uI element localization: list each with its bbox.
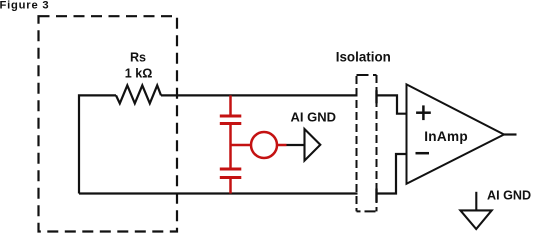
wire: isolation to - input — [378, 154, 407, 194]
svg-text:Figure 3: Figure 3 — [0, 0, 49, 12]
capacitor: red cable capacitance upper — [220, 95, 242, 167]
svg-text:InAmp: InAmp — [424, 129, 468, 144]
source: red circle (common-mode voltage source) — [251, 132, 277, 158]
AI GND arrow (open triangle) — [305, 129, 321, 161]
svg-text:Rs: Rs — [130, 51, 146, 65]
capacitor plate: isolation top right — [375, 90, 377, 103]
dashed box: signal source enclosure — [39, 16, 178, 231]
svg-text:AI GND: AI GND — [291, 109, 337, 124]
plus sign — [416, 105, 431, 120]
svg-text:1 kΩ: 1 kΩ — [125, 67, 153, 81]
wire: isolation to + input — [377, 95, 407, 113]
wire: red stub right of circle — [277, 144, 287, 147]
wire: amp output stub — [504, 133, 517, 135]
svg-text:Isolation: Isolation — [336, 49, 391, 64]
capacitor: red cable capacitance lower — [220, 169, 242, 194]
dashed box: isolation barrier, top edge — [357, 74, 377, 76]
resistor Rs zigzag — [116, 85, 161, 103]
op-amp InAmp triangle — [407, 84, 505, 183]
wire: red branch to source — [231, 144, 251, 147]
wire: black to AI GND arrow — [287, 144, 305, 146]
dashed box: isolation barrier, bottom edge — [357, 210, 377, 212]
minus sign — [416, 152, 430, 155]
svg-text:AI GND: AI GND — [487, 188, 531, 202]
capacitor plate: isolation bottom right — [375, 189, 377, 203]
dashed box: isolation barrier, left edge — [356, 75, 358, 211]
wire: top segment resistor to isolation — [161, 94, 358, 96]
ground symbol AI GND — [460, 192, 491, 229]
dashed box: isolation barrier, right edge — [376, 75, 378, 211]
wire: bottom segment — [79, 192, 358, 194]
wire: top left segment — [79, 95, 116, 193]
